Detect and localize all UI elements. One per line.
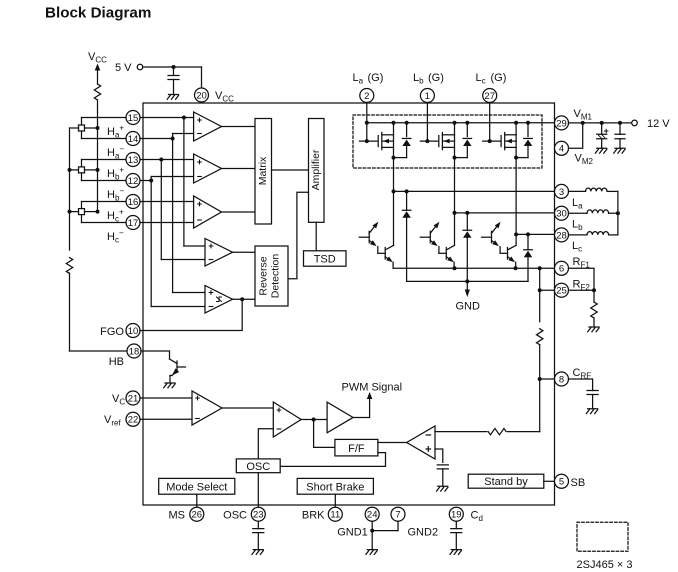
svg-text:2SJ465 × 3: 2SJ465 × 3 (577, 559, 633, 571)
svg-text:5: 5 (559, 477, 564, 488)
svg-text:14: 14 (128, 134, 139, 145)
svg-text:Matrix: Matrix (257, 156, 269, 185)
svg-text:10: 10 (128, 326, 139, 337)
svg-text:11: 11 (330, 510, 340, 521)
svg-text:20: 20 (196, 90, 207, 101)
svg-text:23: 23 (253, 510, 264, 521)
svg-text:5 V: 5 V (115, 62, 132, 74)
svg-text:MS: MS (169, 510, 186, 522)
svg-text:GND2: GND2 (408, 526, 439, 538)
svg-text:Stand by: Stand by (484, 476, 528, 488)
svg-text:18: 18 (129, 346, 140, 357)
svg-text:29: 29 (556, 118, 567, 129)
svg-text:TSD: TSD (314, 253, 336, 265)
svg-text:15: 15 (128, 113, 139, 124)
svg-text:(G): (G) (368, 72, 384, 84)
svg-text:GND1: GND1 (337, 526, 368, 538)
svg-text:FGO: FGO (100, 326, 124, 338)
svg-text:Reverse: Reverse (258, 256, 270, 295)
svg-text:24: 24 (367, 510, 378, 521)
svg-text:Amplifier: Amplifier (310, 149, 322, 190)
svg-text:2: 2 (364, 91, 369, 102)
svg-text:13: 13 (128, 155, 139, 166)
svg-text:Short Brake: Short Brake (306, 481, 364, 493)
svg-text:(G): (G) (428, 72, 444, 84)
svg-text:(G): (G) (491, 72, 507, 84)
svg-text:OSC: OSC (223, 510, 247, 522)
svg-text:25: 25 (556, 286, 567, 297)
svg-text:Mode Select: Mode Select (166, 481, 227, 493)
svg-text:BRK: BRK (302, 510, 325, 522)
svg-text:HB: HB (109, 356, 124, 368)
svg-text:6: 6 (559, 264, 564, 275)
svg-text:8: 8 (559, 374, 564, 385)
svg-text:3: 3 (559, 187, 564, 198)
svg-text:19: 19 (451, 510, 462, 521)
svg-text:12: 12 (128, 176, 139, 187)
svg-text:26: 26 (192, 510, 203, 521)
svg-text:Block Diagram: Block Diagram (45, 5, 151, 22)
svg-text:21: 21 (128, 393, 139, 404)
svg-text:OSC: OSC (246, 461, 270, 473)
svg-text:Detection: Detection (270, 254, 282, 299)
svg-text:PWM Signal: PWM Signal (342, 382, 403, 394)
svg-text:27: 27 (484, 91, 495, 102)
svg-text:GND: GND (455, 301, 480, 313)
svg-text:4: 4 (559, 144, 564, 155)
svg-text:22: 22 (128, 415, 139, 426)
svg-text:28: 28 (556, 230, 567, 241)
svg-text:SB: SB (571, 477, 586, 489)
svg-text:16: 16 (128, 197, 139, 208)
svg-text:12 V: 12 V (647, 118, 670, 130)
svg-text:7: 7 (395, 510, 400, 521)
svg-text:1: 1 (425, 91, 430, 102)
svg-text:17: 17 (128, 218, 139, 229)
svg-text:F/F: F/F (348, 443, 365, 455)
svg-text:30: 30 (556, 209, 567, 220)
